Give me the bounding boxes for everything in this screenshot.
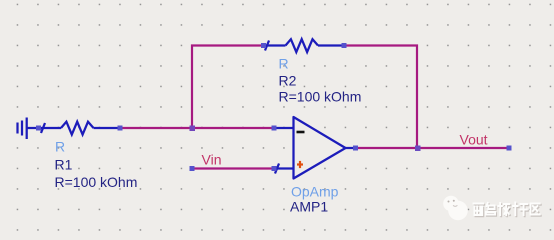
svg-text:R=100 kOhm: R=100 kOhm: [279, 89, 362, 105]
svg-text:AMP1: AMP1: [290, 199, 328, 215]
svg-text:R=100 kOhm: R=100 kOhm: [55, 174, 138, 190]
svg-text:R1: R1: [55, 157, 73, 173]
svg-text:Vin: Vin: [202, 152, 222, 168]
svg-text:OpAmp: OpAmp: [291, 184, 339, 200]
svg-text:R: R: [55, 139, 65, 155]
svg-text:R2: R2: [279, 73, 297, 89]
svg-text:R: R: [279, 56, 289, 72]
svg-text:Vout: Vout: [460, 132, 488, 148]
